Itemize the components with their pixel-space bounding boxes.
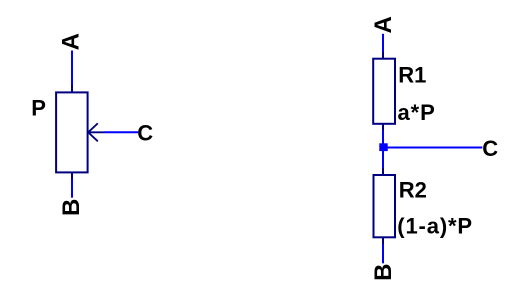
pin stub top of R2 [382,168,384,176]
resistor R1 body [373,59,395,124]
svg-text:B: B [370,264,397,281]
pin stub bottom of R1 [382,124,384,131]
junction node C (solder dot) [379,143,387,151]
pin stub top of potentiometer [71,85,73,92]
svg-text:R1: R1 [398,62,426,87]
svg-text:a*P: a*P [398,100,436,125]
svg-text:P: P [31,95,46,120]
potentiometer P body [56,92,88,172]
wire A to R1 top [382,34,384,53]
wire wiper to C (left) [104,131,138,133]
wire potentiometer bottom to B [71,179,73,198]
wire A to potentiometer top [71,51,73,87]
wire junction to C (right) [387,147,482,149]
pin stub top of R1 [382,52,384,59]
wire R1 bottom to junction [382,130,384,147]
pin stub bottom of potentiometer [71,172,73,180]
svg-text:B: B [58,199,85,216]
wiper arrow of potentiometer [88,123,104,141]
svg-text:C: C [137,120,153,145]
pin stub bottom of R2 [382,237,384,245]
resistor R2 body [374,175,396,237]
svg-text:A: A [58,33,85,50]
svg-text:R2: R2 [399,177,427,202]
svg-text:A: A [370,16,397,33]
wire junction to R2 top [382,148,384,169]
wire R2 bottom to B [382,244,384,263]
svg-text:(1-a)*P: (1-a)*P [397,214,473,239]
svg-text:C: C [482,136,498,161]
